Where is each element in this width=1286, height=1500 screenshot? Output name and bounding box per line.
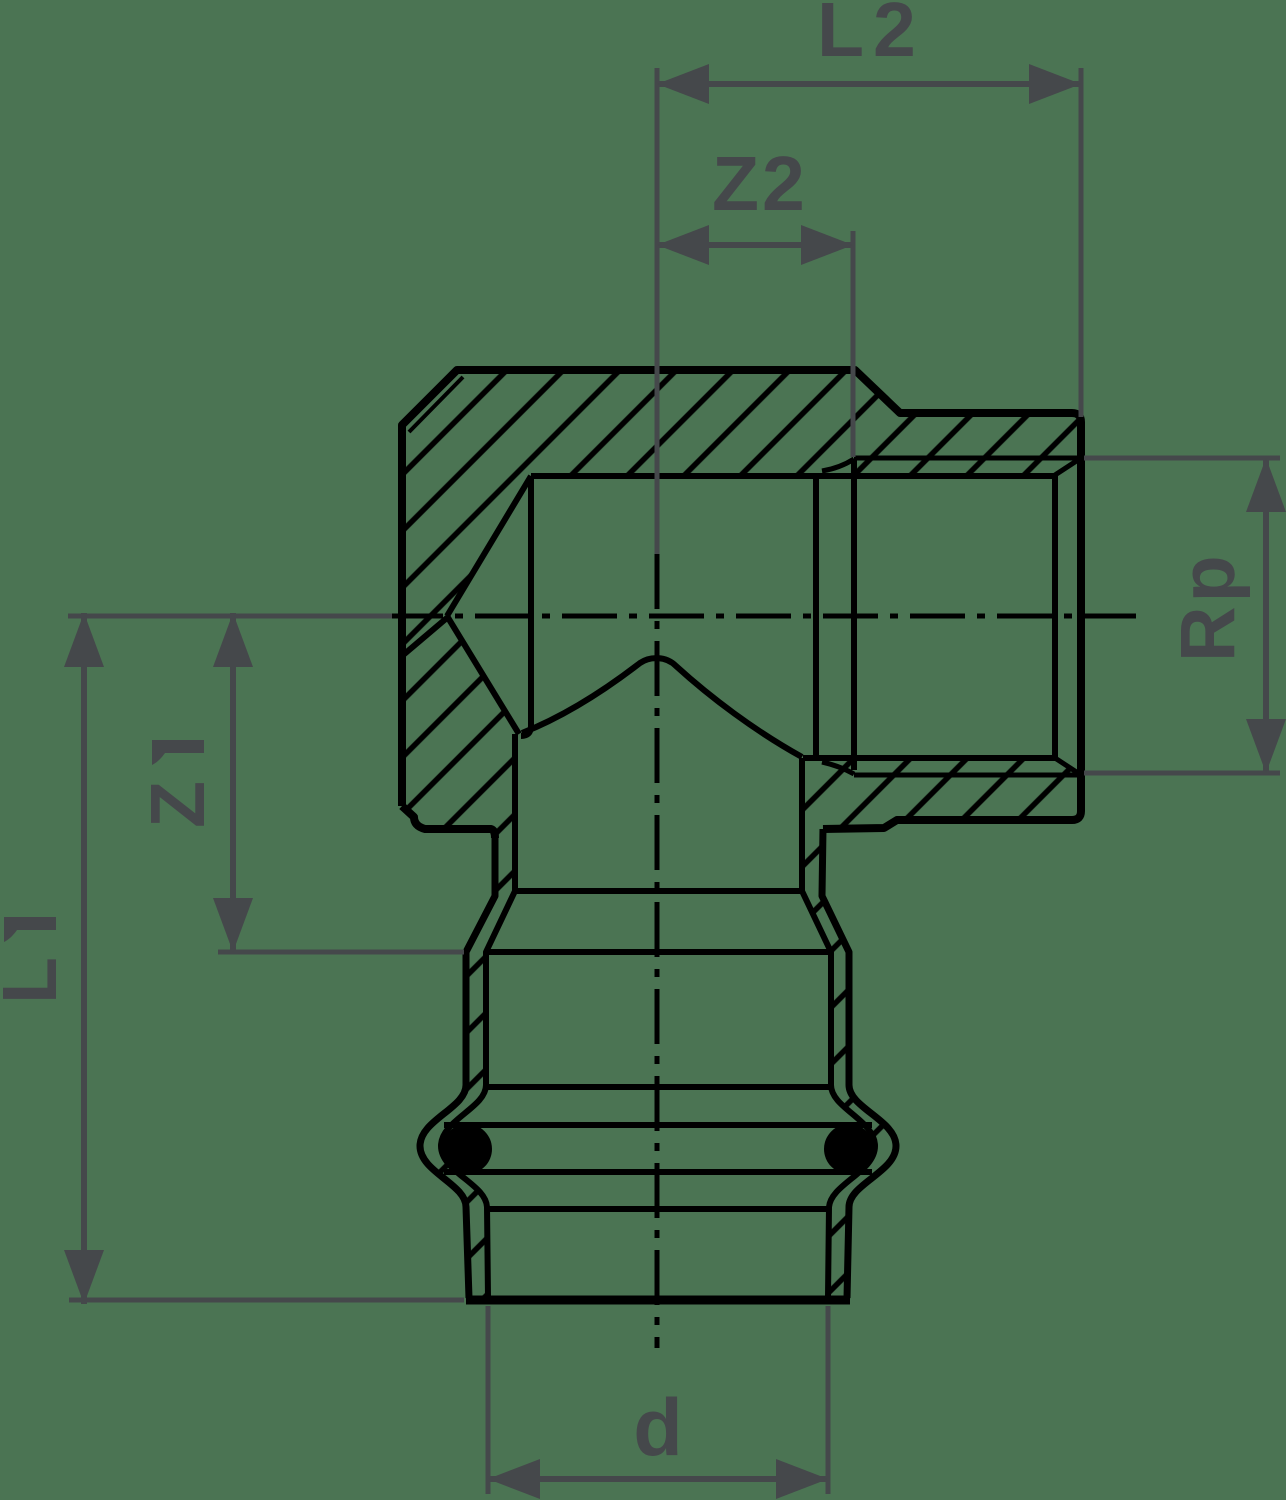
extension line Rp top [1084, 456, 1280, 461]
extension line d right [826, 1306, 831, 1494]
face chamfer bottom [1055, 758, 1081, 775]
centerline vertical [655, 554, 660, 1348]
thread runout top [822, 459, 854, 471]
dimension d [488, 1476, 828, 1482]
extension line d left [486, 1306, 491, 1494]
dimension L1 [81, 613, 87, 1304]
bore top line [531, 473, 1055, 479]
dimension Z2 [657, 242, 853, 248]
extension line L2 right [1079, 68, 1084, 417]
svg-text:Rp: Rp [1165, 551, 1251, 662]
bore bottom line right [803, 755, 1055, 761]
extension line L1 bottom [69, 1298, 464, 1303]
dimension Rp [1263, 458, 1269, 773]
extension line Z1 bottom [218, 950, 464, 955]
svg-text:L: L [0, 957, 73, 1004]
extension line L2/Z2 left [655, 68, 660, 554]
cone flank lower [447, 616, 519, 734]
svg-text:Z2: Z2 [712, 141, 808, 227]
tube inner left [441, 734, 515, 1297]
face chamfer top [1055, 458, 1081, 475]
dimension L2 [657, 81, 1081, 87]
hatched section: body left region [402, 370, 1081, 1298]
bore left edge [521, 476, 531, 736]
o-ring bottom tangent [444, 1169, 872, 1175]
o-ring top tangent [444, 1122, 872, 1128]
thread runout bottom [822, 762, 854, 774]
groove top line [486, 1084, 830, 1090]
svg-text:Z: Z [135, 781, 221, 828]
o-ring left [442, 1124, 492, 1174]
dimension Z1 [230, 613, 236, 952]
chamfer inner thin line top-left [409, 377, 463, 432]
dome curve [522, 658, 802, 757]
bore relief vertical at face [1052, 475, 1058, 758]
groove bottom line [488, 1206, 828, 1212]
hatched section: right region [802, 757, 1081, 1298]
o-ring right [824, 1124, 874, 1174]
thread crest top [854, 456, 1081, 461]
tube outer right [822, 829, 896, 1298]
tube bottom edge [466, 1296, 850, 1305]
bottom-left foot [402, 806, 495, 838]
tube outer left [420, 838, 495, 1298]
tube inner right [802, 758, 875, 1297]
centerline horizontal [388, 614, 1136, 619]
svg-text:L2: L2 [817, 0, 925, 73]
extension line axis left gray [68, 614, 392, 619]
extension line Rp bottom [1084, 771, 1280, 776]
outer outline upper body [402, 370, 1081, 829]
cone silhouette line [402, 617, 448, 656]
pipe stop shoulder [517, 888, 802, 894]
thread crest bottom [854, 773, 1081, 778]
pilot bore end face [813, 476, 819, 761]
thread end face [851, 459, 857, 770]
cone flank upper [447, 476, 531, 616]
taper end line [486, 949, 830, 955]
extension line Z2 right [851, 231, 856, 457]
svg-text:d: d [633, 1383, 682, 1473]
